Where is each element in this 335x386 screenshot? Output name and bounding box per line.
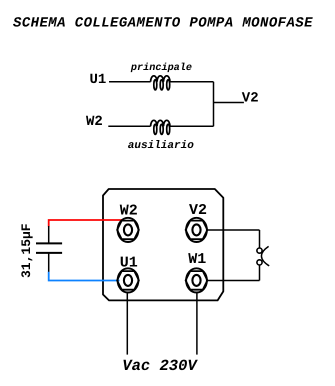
wire right vertical rail xyxy=(213,82,215,127)
inductor L2 loop 3 xyxy=(167,124,170,134)
capacitor C1 top plate xyxy=(36,242,62,244)
wire V2 to switch xyxy=(207,229,260,231)
terminal W1 xyxy=(186,268,208,292)
capacitor C1 bottom plate xyxy=(36,252,62,254)
wire W1 to supply xyxy=(196,292,198,355)
inductor L2 loop 1 xyxy=(154,124,157,134)
terminal W2 xyxy=(117,218,139,242)
wire main winding to right rail xyxy=(170,81,214,83)
wire W2 to aux winding xyxy=(108,125,150,127)
capacitor C1 top lead xyxy=(48,226,50,243)
wire W1 to switch xyxy=(207,280,260,282)
switch contact top xyxy=(257,248,262,253)
inductor L1 loop 3 xyxy=(167,80,170,90)
inductor L2 loop 2 xyxy=(160,124,163,134)
inductor L1 principale humps xyxy=(151,76,170,82)
svg-text:ausiliario: ausiliario xyxy=(128,140,194,152)
svg-text:SCHEMA COLLEGAMENTO POMPA MONO: SCHEMA COLLEGAMENTO POMPA MONOFASE xyxy=(13,15,313,31)
terminal V2 xyxy=(186,218,208,242)
inductor L2 ausiliario humps xyxy=(151,120,170,126)
inductor L1 loop 1 xyxy=(154,80,157,90)
svg-text:W2: W2 xyxy=(86,114,103,130)
wire switch rail top xyxy=(259,230,261,248)
svg-text:U1: U1 xyxy=(90,72,107,88)
svg-text:31,15µF: 31,15µF xyxy=(19,223,34,278)
capacitor C1 bottom lead xyxy=(48,253,50,272)
wire V2 stub xyxy=(214,102,244,104)
svg-text:Vac 230V: Vac 230V xyxy=(122,357,198,375)
capacitor C1 red wire xyxy=(49,220,122,227)
terminal box outline xyxy=(103,189,223,300)
wire U1 to supply xyxy=(126,292,128,355)
svg-text:V2: V2 xyxy=(242,90,259,106)
switch contact bottom xyxy=(257,260,262,265)
svg-text:principale: principale xyxy=(130,62,192,74)
terminal U1 xyxy=(117,268,139,292)
svg-text:W1: W1 xyxy=(188,251,206,268)
wire aux winding to right rail xyxy=(170,125,214,127)
inductor L1 loop 2 xyxy=(160,80,163,90)
switch blade arc xyxy=(261,246,269,266)
capacitor C1 blue wire xyxy=(49,272,120,281)
svg-text:V2: V2 xyxy=(189,202,207,219)
wire U1 to main winding xyxy=(109,81,151,83)
wire switch rail bottom xyxy=(259,265,261,281)
